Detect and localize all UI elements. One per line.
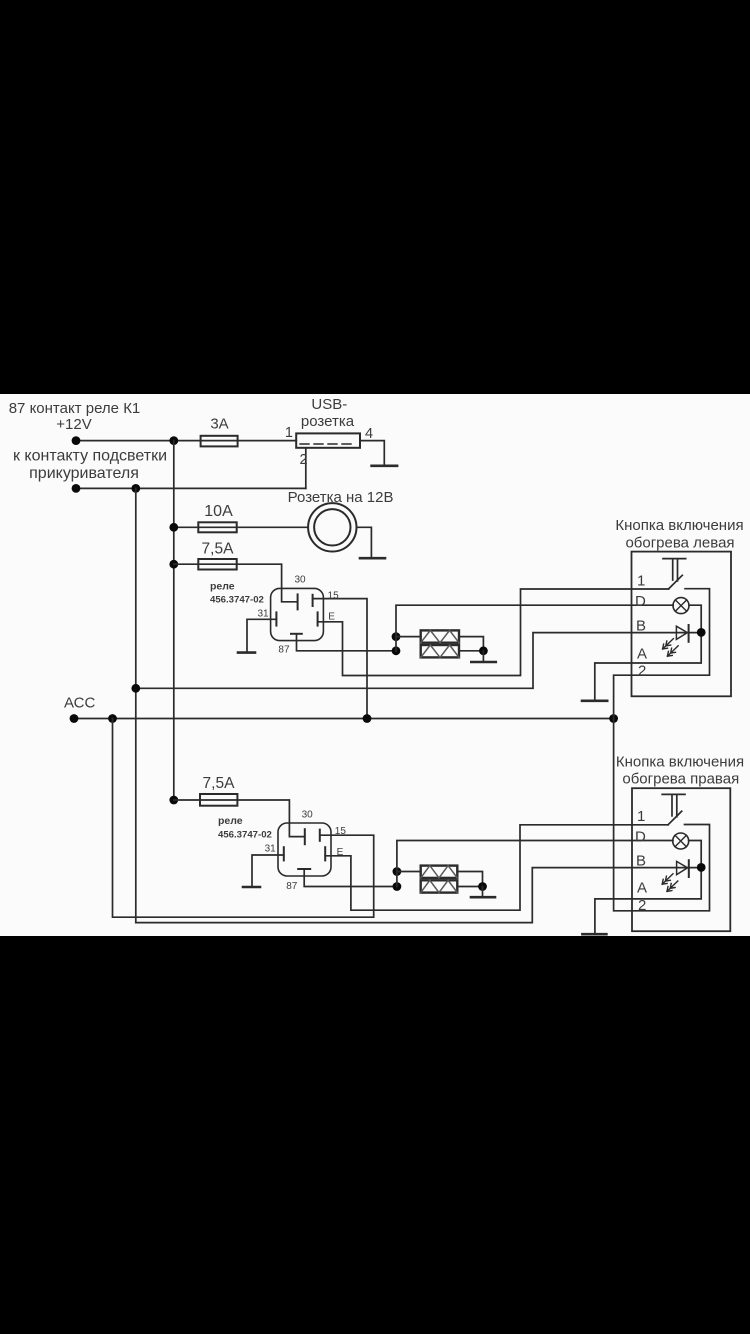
svg-text:87: 87: [286, 881, 298, 892]
svg-text:10А: 10А: [204, 503, 233, 520]
svg-text:7,5А: 7,5А: [202, 541, 235, 558]
switch SW2 blade: [668, 811, 682, 825]
button SW1 outer box: [632, 552, 732, 697]
wire illumination feed: [76, 487, 306, 489]
fuse F1 3A: [201, 436, 238, 447]
svg-text:D: D: [635, 829, 646, 846]
svg-text:30: 30: [295, 575, 307, 586]
wire USB internal dashed: [300, 443, 356, 445]
svg-text:2: 2: [638, 897, 646, 914]
svg-text:Кнопка включения: Кнопка включения: [615, 517, 743, 534]
resistor heater element 2b: [421, 880, 458, 892]
node illumination left terminal: [72, 484, 81, 493]
node junction 10A branch: [169, 523, 178, 532]
wire lamp 1 output to ground via pin A: [595, 605, 701, 700]
svg-text:АСС: АСС: [64, 694, 96, 711]
svg-text:D: D: [635, 593, 646, 610]
node junction illumination rail: [131, 484, 140, 493]
svg-text:456.3747-02: 456.3747-02: [210, 594, 264, 605]
svg-text:реле: реле: [218, 815, 243, 827]
node ACC junction x367: [363, 714, 372, 723]
wire ACC rail: [74, 718, 614, 720]
wire 7,5A lower fuse to relay U2 pin 30: [174, 800, 305, 837]
svg-text:B: B: [636, 618, 646, 635]
node junction 7,5A lower branch: [169, 796, 178, 805]
wire relay U2 pin E to button 2 pin 1: [325, 825, 668, 910]
ground relay U2 pin 31: [243, 886, 260, 889]
pin 31 coil bar relay U1: [275, 612, 277, 625]
ground USB: [372, 464, 398, 467]
wire heater 2 upper left stub: [397, 871, 421, 873]
svg-text:Розетка на 12В: Розетка на 12В: [288, 489, 394, 506]
svg-text:87 контакт реле К1: 87 контакт реле К1: [9, 400, 141, 417]
wire heater 1 to button 1 pin D: [396, 605, 673, 636]
svg-text:31: 31: [265, 843, 277, 854]
node ACC left terminal: [70, 714, 79, 723]
connector 12V socket inner ring: [314, 509, 350, 545]
svg-text:30: 30: [302, 809, 314, 820]
svg-text:Кнопка включения: Кнопка включения: [616, 754, 744, 771]
pin 31 coil bar relay U2: [283, 847, 285, 860]
svg-text:прикуривателя: прикуривателя: [29, 465, 139, 482]
schematic background: [0, 394, 750, 936]
wire USB pin4 to ground: [360, 441, 384, 466]
button SW2 outer box: [632, 788, 730, 931]
switch SW1 blade: [669, 575, 683, 589]
svg-text:1: 1: [637, 573, 645, 590]
ground 12V socket: [360, 557, 385, 560]
wire heater 1 to ground: [482, 651, 484, 662]
wire heater 1 upper left stub: [396, 636, 421, 638]
svg-text:7,5А: 7,5А: [203, 775, 236, 792]
wire relay U1 pin E to button 1 pin 1: [318, 589, 669, 676]
wire heater 2 junction link: [396, 872, 398, 887]
svg-text:A: A: [637, 646, 647, 663]
node +12V left terminal: [72, 436, 81, 445]
wire 12V socket to ground: [357, 527, 372, 558]
node ACC junction x112: [108, 714, 117, 723]
wire relay U1 pin 31: [247, 619, 276, 652]
svg-text:1: 1: [285, 425, 293, 441]
svg-text:Е: Е: [337, 847, 344, 858]
ground heater 1: [471, 661, 496, 664]
fuse F3 7,5A upper: [198, 559, 236, 570]
relay U1 body: [271, 588, 324, 640]
svg-text:87: 87: [278, 645, 290, 656]
svg-text:2: 2: [300, 452, 308, 468]
node LED 1 output junction: [697, 628, 706, 637]
lamp button 2: [673, 833, 689, 849]
svg-text:2: 2: [638, 663, 646, 680]
wire illumination branch to button 1 pin B: [136, 633, 701, 689]
connector 12V socket outer ring: [308, 503, 356, 551]
svg-text:USB-: USB-: [311, 396, 347, 413]
svg-text:Е: Е: [328, 612, 335, 623]
node ACC junction x613: [609, 714, 618, 723]
svg-text:15: 15: [335, 826, 347, 837]
fuse F2 10A: [198, 522, 236, 532]
svg-text:B: B: [636, 853, 646, 870]
node junction 12V rail top: [169, 436, 178, 445]
svg-text:обогрева левая: обогрева левая: [625, 535, 734, 552]
node heater 2 lower junction: [393, 882, 402, 891]
wire lamp 2 output to ground via pin A: [595, 841, 701, 935]
node heater 1 upper junction: [392, 632, 401, 641]
pin 87 contact bar relay U1: [291, 633, 302, 635]
pin 15 contact bar relay U2: [319, 830, 321, 841]
connector USB socket body: [296, 433, 360, 447]
wire relay U2 pin 31: [252, 855, 284, 887]
resistor heater element 1a: [421, 630, 459, 642]
svg-text:15: 15: [328, 591, 340, 602]
wire heater 1 junction link: [395, 637, 397, 651]
wire button 1 pin 2 path to ACC: [614, 589, 710, 719]
wire illumination vertical rail: [135, 488, 137, 922]
wire heater 2 right side: [457, 872, 482, 887]
relay U2 body: [278, 823, 331, 876]
lamp button 1: [673, 598, 689, 614]
node LED 2 output junction: [697, 863, 706, 872]
wire ACC to relay U2 pin 15: [113, 719, 374, 918]
fuse F4 7,5A lower: [200, 794, 237, 806]
LED button 2: [677, 861, 688, 874]
wire 7,5A fuse to relay K1 pin 30: [174, 564, 298, 602]
pin E coil bar relay U1: [317, 612, 319, 625]
pin E coil bar relay U2: [324, 847, 326, 860]
svg-text:розетка: розетка: [301, 413, 355, 430]
switch SW2 plunger: [662, 794, 685, 816]
resistor heater element 1b: [421, 645, 459, 657]
switch SW1 plunger: [663, 559, 686, 581]
LED 2 emission arrows: [662, 874, 673, 884]
svg-text:1: 1: [637, 808, 645, 825]
svg-text:456.3747-02: 456.3747-02: [218, 830, 272, 841]
svg-text:3А: 3А: [210, 416, 228, 433]
svg-text:4: 4: [365, 426, 373, 442]
ground button 2 pin A: [582, 933, 606, 936]
wire relay U1 pin 15 to ACC: [313, 599, 367, 719]
wire 10A fuse to 12V socket: [174, 526, 308, 528]
node heater 1 lower junction: [392, 646, 401, 655]
ground button 1 pin A: [582, 699, 607, 702]
pin 15 contact bar relay U1: [312, 595, 314, 606]
svg-text:обогрева правая: обогрева правая: [622, 771, 739, 788]
svg-text:+12V: +12V: [56, 416, 91, 433]
pin 30 contact bar relay U2: [304, 829, 306, 844]
wire relay U1 pin 87 to heater 1: [297, 634, 397, 651]
pin 30 contact bar relay U1: [297, 594, 299, 609]
svg-text:к контакту подсветки: к контакту подсветки: [13, 448, 167, 465]
pin 87 contact bar relay U2: [298, 868, 310, 870]
wire heater 1 right side: [459, 637, 483, 651]
svg-text:31: 31: [258, 609, 270, 620]
node heater 1 right junction: [479, 646, 488, 655]
wire USB pin2 riser: [305, 448, 307, 489]
wire illumination branch to button 2 pin B: [136, 868, 701, 923]
node illumination branch junction: [131, 684, 140, 693]
wire heater 2 to button 2 pin D: [397, 841, 673, 872]
ground relay U1 pin 31: [238, 651, 255, 654]
LED 1 emission arrows: [663, 639, 674, 649]
wire heater 2 to ground: [482, 887, 484, 897]
svg-text:реле: реле: [210, 581, 235, 593]
ground heater 2: [471, 896, 495, 899]
LED button 1: [676, 626, 687, 639]
svg-text:A: A: [637, 880, 647, 897]
wire +12V main to USB pin 1: [76, 440, 296, 442]
wire 12V vertical rail: [173, 441, 175, 800]
wire relay U2 pin 87 to heater 2: [304, 869, 397, 887]
node heater 2 upper junction: [393, 867, 402, 876]
resistor heater element 2a: [421, 866, 458, 878]
node heater 2 right junction: [478, 882, 487, 891]
node junction 7,5A upper branch: [169, 560, 178, 569]
wire button 2 pin 2 path to ACC: [614, 719, 710, 911]
